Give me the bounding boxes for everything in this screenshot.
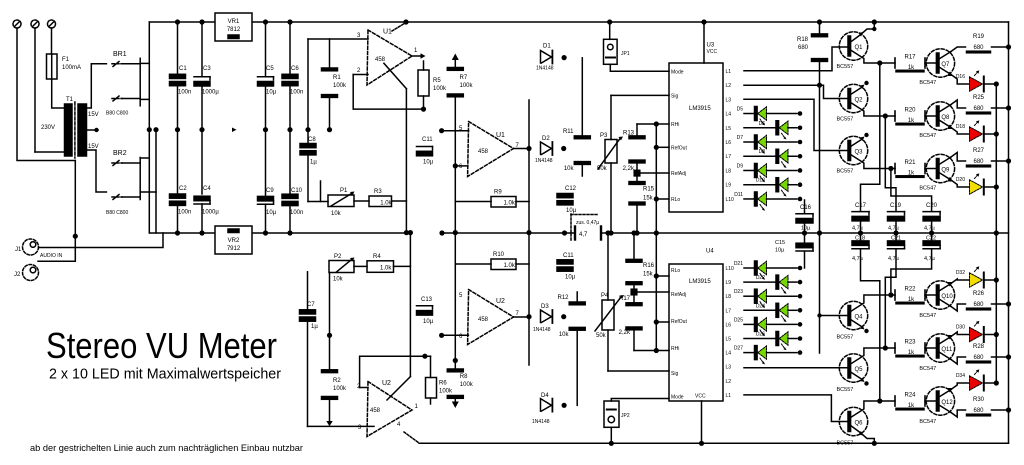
capacitor C2 100n: [170, 194, 186, 198]
svg-text:L2: L2: [726, 379, 732, 385]
svg-text:C7: C7: [307, 302, 315, 308]
svg-text:RLo: RLo: [671, 197, 680, 203]
wire J1 to 0V rail: [39, 233, 164, 248]
IC U3 LM3915: [669, 63, 723, 212]
svg-text:R8: R8: [460, 374, 468, 380]
svg-text:BC547: BC547: [919, 80, 936, 86]
resistor R21 1k: [894, 164, 896, 174]
svg-text:4,7µ: 4,7µ: [924, 256, 936, 262]
svg-text:D24: D24: [756, 303, 765, 309]
LED D5 green: [744, 113, 755, 115]
capacitor C20 4.7u: [891, 169, 932, 212]
wire RefOut row: [656, 146, 669, 148]
svg-text:Sig: Sig: [671, 371, 678, 377]
svg-text:D1: D1: [543, 44, 551, 50]
transistor Q8 BC547: [926, 102, 954, 130]
U1a output wire: [412, 55, 420, 57]
svg-text:L3: L3: [726, 365, 732, 371]
svg-text:15V: 15V: [88, 112, 99, 118]
diode D4 1N4148: [541, 399, 552, 412]
svg-text:C22: C22: [926, 236, 936, 242]
svg-text:L9: L9: [726, 183, 732, 189]
LED D25 green: [744, 323, 755, 325]
wire RHi row: [637, 123, 669, 125]
Q5 collector: [851, 348, 895, 364]
capacitor C12 10u: [557, 194, 573, 198]
transistor Q12 BC547: [926, 387, 954, 415]
resistor R3 1.0k: [369, 196, 392, 207]
svg-text:D10: D10: [756, 178, 765, 184]
LED D23 green: [744, 295, 755, 297]
potentiometer P1 10k: [328, 195, 354, 207]
svg-text:R12: R12: [557, 295, 569, 301]
svg-text:1N4148: 1N4148: [532, 419, 550, 425]
svg-text:458: 458: [478, 149, 489, 155]
capacitor C14 4.7u series on rail: [574, 227, 576, 240]
svg-text:D5: D5: [737, 107, 744, 113]
svg-text:Q9: Q9: [941, 168, 950, 174]
resistor R24 1k: [894, 396, 896, 406]
svg-text:BC557: BC557: [837, 441, 854, 447]
net arrow center tap row: [232, 128, 237, 133]
svg-text:C9: C9: [266, 188, 274, 194]
resistor R5 100k: [418, 70, 429, 96]
svg-text:7912: 7912: [227, 246, 241, 252]
wire RLo-b row: [656, 275, 669, 277]
svg-text:ab der gestrichelten Linie auc: ab der gestrichelten Linie auch zum nach…: [30, 443, 303, 454]
vertical net U1b output: [528, 100, 530, 233]
svg-text:R7: R7: [460, 75, 468, 81]
svg-text:R3: R3: [374, 189, 382, 195]
svg-text:680: 680: [973, 106, 984, 112]
svg-text:C11: C11: [422, 137, 433, 143]
Q6 emitter to bottom rail: [851, 426, 861, 433]
svg-text:BC557: BC557: [837, 387, 854, 393]
svg-text:Q5: Q5: [855, 367, 864, 373]
svg-text:D9: D9: [737, 163, 744, 169]
resistor R7 100k with V+ arrow: [452, 54, 459, 61]
jumper JP2: [604, 401, 619, 427]
wire RefAdj row: [637, 172, 669, 174]
resistor R20 1k: [894, 111, 896, 121]
U2a V- dashed: [404, 432, 419, 443]
U3 VCC wire: [703, 22, 705, 63]
svg-text:2,2k: 2,2k: [619, 330, 631, 336]
wire U1a output to R3 node: [384, 63, 407, 88]
terminal X2: [31, 20, 39, 28]
LED cathode bus top: [995, 84, 997, 384]
svg-text:R24: R24: [904, 393, 916, 399]
U1b output wire: [514, 148, 530, 150]
svg-text:1000µ: 1000µ: [202, 210, 219, 216]
resistor R16 1.5k: [626, 282, 642, 285]
wire L1 to Q1: [744, 47, 848, 71]
svg-text:10k: 10k: [559, 332, 570, 338]
Q4 collector: [851, 295, 895, 312]
potentiometer P2 10k: [329, 261, 354, 273]
transistor Q9 BC547: [926, 154, 954, 182]
svg-text:C15: C15: [775, 240, 785, 246]
svg-text:1.0k: 1.0k: [504, 263, 516, 269]
svg-text:AUDIO IN: AUDIO IN: [40, 253, 63, 259]
transistor Q7 BC547: [926, 49, 954, 77]
svg-text:C19: C19: [890, 203, 902, 209]
svg-text:P2: P2: [334, 254, 342, 260]
wire X1 down and across: [17, 28, 75, 161]
capacitor C6 100n: [289, 22, 291, 74]
Q2 collector: [851, 103, 895, 117]
svg-text:4,7µ: 4,7µ: [888, 256, 900, 262]
svg-text:L4: L4: [726, 112, 732, 118]
svg-text:L7: L7: [726, 308, 732, 314]
svg-text:BC547: BC547: [919, 186, 936, 192]
svg-text:U1: U1: [496, 132, 505, 139]
wire X3 to fuse: [51, 28, 53, 54]
svg-text:T1: T1: [66, 97, 74, 103]
svg-text:100n: 100n: [290, 90, 303, 96]
svg-text:B80 C800: B80 C800: [106, 210, 128, 216]
wire X2 down: [34, 28, 36, 152]
svg-text:C2: C2: [179, 186, 187, 192]
wire to U2a output diag: [387, 377, 410, 400]
U1a feedback loop wire: [353, 75, 423, 110]
U2b output: [514, 316, 530, 318]
svg-text:C16: C16: [800, 205, 812, 211]
svg-text:4,7µ: 4,7µ: [888, 225, 900, 231]
svg-text:VCC: VCC: [707, 49, 718, 55]
resistor R23 1k: [894, 343, 896, 353]
Q7 collector to R19: [939, 52, 951, 60]
svg-text:RHi: RHi: [671, 346, 679, 352]
svg-text:L10: L10: [726, 266, 735, 272]
capacitor C9 10u: [258, 196, 274, 201]
svg-text:RefAdj: RefAdj: [671, 171, 686, 177]
svg-text:U2: U2: [382, 380, 391, 387]
svg-text:10k: 10k: [333, 277, 344, 283]
U4 VCC wire: [701, 401, 703, 443]
transistor Q1 BC557: [839, 32, 867, 60]
svg-text:10µ: 10µ: [266, 210, 277, 216]
capacitor C19 4.7u: [885, 116, 896, 211]
terminal X3: [48, 20, 56, 28]
resistor R9 1.0k: [491, 197, 516, 208]
resistor R2 100k: [322, 370, 338, 373]
vertical net U2b output: [528, 233, 530, 365]
svg-text:RefOut: RefOut: [671, 146, 687, 152]
svg-text:R30: R30: [973, 397, 985, 403]
svg-text:L7: L7: [726, 154, 732, 160]
svg-text:VR1: VR1: [228, 19, 240, 25]
svg-text:RHi: RHi: [671, 122, 679, 128]
Q10 emitter to LED: [939, 284, 951, 292]
svg-text:R5: R5: [433, 78, 441, 84]
svg-text:10µ: 10µ: [266, 90, 277, 96]
svg-text:R28: R28: [973, 344, 985, 350]
svg-text:R27: R27: [973, 148, 985, 154]
resistor R17b 2.2k: [633, 330, 635, 351]
svg-text:680: 680: [973, 355, 984, 361]
svg-text:R10: R10: [493, 252, 505, 258]
Q7 emitter to LED: [939, 67, 951, 75]
diode D1 1N4148: [541, 51, 552, 64]
svg-text:L8: L8: [726, 294, 732, 300]
LED D9 green: [744, 169, 755, 171]
wire primary bottom: [35, 151, 65, 153]
svg-text:R19: R19: [973, 34, 985, 40]
Q3 collector: [851, 155, 895, 169]
resistor R17 1k: [894, 58, 896, 68]
LED D18: [970, 127, 983, 141]
svg-text:D4: D4: [541, 393, 549, 399]
svg-text:230V: 230V: [41, 125, 55, 131]
capacitor C13 10u: [417, 305, 433, 307]
wire R18 down to Q4 base riser: [819, 61, 821, 353]
op-amp U2a: [367, 382, 412, 437]
svg-text:R2: R2: [333, 378, 341, 384]
svg-text:D16: D16: [956, 74, 965, 80]
svg-text:C13: C13: [421, 297, 433, 303]
wire L3 to Q3: [744, 99, 848, 150]
wire L3b to Q5: [744, 367, 848, 369]
svg-text:C8: C8: [308, 137, 316, 143]
wire L2 to Q2: [744, 85, 848, 98]
svg-text:1N4148: 1N4148: [536, 66, 554, 72]
svg-text:R4: R4: [373, 254, 381, 260]
transistor Q5 BC557: [839, 354, 867, 382]
svg-text:C3: C3: [203, 66, 211, 72]
Q8 collector to R25: [939, 105, 951, 113]
U1b pin5 stub: [442, 130, 469, 132]
wire JP1 to Mode: [610, 64, 669, 71]
bottom rail V-: [419, 442, 1009, 444]
bridge rectifier BR2 B80C800: [112, 158, 156, 200]
U2a pin2 stub and loop: [360, 387, 368, 389]
connector J1: [23, 239, 39, 255]
svg-text:100k: 100k: [460, 382, 474, 388]
svg-text:L1: L1: [726, 393, 732, 399]
svg-text:10k: 10k: [564, 166, 575, 172]
U1b pin6 stub: [455, 165, 468, 167]
Q8 emitter to LED: [939, 120, 951, 128]
V+ rail: [149, 21, 1008, 23]
wire J2 up to transformer node: [38, 161, 75, 262]
transistor Q6 BC557: [839, 407, 867, 435]
U2b pin stub: [442, 334, 469, 336]
svg-text:C6: C6: [291, 66, 299, 72]
svg-text:15V: 15V: [88, 144, 99, 150]
Q1 emitter to rail: [851, 35, 861, 42]
capacitor C11 10u: [417, 146, 433, 148]
svg-text:1000µ: 1000µ: [202, 90, 219, 96]
svg-text:BC547: BC547: [919, 313, 936, 319]
terminal X1: [13, 20, 21, 28]
svg-text:2,2k: 2,2k: [623, 166, 635, 172]
svg-text:4,7µ: 4,7µ: [852, 256, 864, 262]
svg-text:D18: D18: [956, 124, 965, 130]
Q11 emitter to LED: [939, 337, 951, 345]
svg-text:100k: 100k: [433, 86, 447, 92]
svg-text:zus. 0,47µ: zus. 0,47µ: [576, 220, 599, 226]
svg-text:Q11: Q11: [941, 347, 953, 353]
svg-text:R6: R6: [439, 381, 447, 387]
svg-text:R18: R18: [797, 37, 809, 43]
LED D26 green: [744, 338, 776, 340]
wire riser to Q4 base: [820, 315, 849, 317]
svg-text:R16: R16: [643, 263, 655, 269]
svg-text:L1: L1: [726, 69, 732, 75]
svg-text:50k: 50k: [596, 333, 607, 339]
Q12 collector to R30: [939, 405, 951, 413]
Q9 collector to R27: [939, 157, 951, 165]
LED D30: [970, 327, 983, 341]
svg-text:R9: R9: [494, 190, 502, 196]
Q10 collector to R26: [939, 299, 951, 307]
svg-text:Q7: Q7: [941, 62, 950, 68]
svg-text:10µ: 10µ: [566, 208, 577, 214]
svg-text:LM3915: LM3915: [689, 106, 711, 112]
resistor R12 10k: [569, 302, 585, 305]
svg-text:C1: C1: [179, 66, 187, 72]
svg-text:BC547: BC547: [919, 133, 936, 139]
svg-text:Stereo VU Meter: Stereo VU Meter: [46, 325, 277, 366]
fuse F1 100mA: [47, 54, 58, 79]
svg-text:Q6: Q6: [855, 421, 864, 427]
dashed retrofit line: [570, 214, 572, 241]
LED D24 green: [744, 309, 776, 311]
LED D8 green: [744, 155, 776, 157]
svg-text:D3: D3: [541, 304, 549, 310]
svg-text:50k: 50k: [597, 166, 608, 172]
wire secondary bottom to BR2: [87, 150, 107, 192]
svg-text:BC547: BC547: [919, 419, 936, 425]
wire Sig row: [611, 94, 669, 96]
transistor Q11 BC547: [926, 334, 954, 362]
svg-text:100k: 100k: [460, 83, 474, 89]
svg-text:100k: 100k: [333, 83, 347, 89]
svg-text:L10: L10: [726, 197, 735, 203]
wire Sig-b row: [608, 370, 669, 372]
svg-text:BC557: BC557: [837, 335, 854, 341]
svg-text:R1: R1: [333, 75, 341, 81]
svg-text:1N4148: 1N4148: [535, 158, 553, 164]
transistor Q2 BC557: [839, 84, 867, 112]
svg-text:L8: L8: [726, 168, 732, 174]
capacitor C16 10u: [804, 200, 806, 214]
svg-text:RLo: RLo: [671, 268, 680, 274]
svg-text:100n: 100n: [290, 210, 303, 216]
feedback vertical bottom: [409, 233, 411, 377]
U1a V+ dashed: [392, 23, 406, 32]
capacitor C15 10u: [804, 233, 806, 243]
svg-text:Q1: Q1: [855, 45, 864, 51]
resistor R4 1.0k: [367, 261, 394, 273]
svg-text:R11: R11: [563, 129, 574, 135]
svg-text:4,7µ: 4,7µ: [924, 225, 936, 231]
capacitor C17 4.7u: [861, 63, 880, 211]
svg-text:U3: U3: [707, 43, 715, 49]
svg-text:R15: R15: [643, 187, 655, 193]
svg-text:Q8: Q8: [941, 115, 950, 121]
svg-text:C11: C11: [563, 253, 574, 259]
wire RLo row: [656, 198, 669, 200]
right supply bus: [1008, 22, 1010, 443]
resistor R1 100k: [322, 68, 338, 71]
LED D21 green: [744, 267, 755, 269]
voltage regulator VR2 7912: [215, 226, 252, 254]
LED D11 green: [744, 198, 755, 200]
svg-text:C20: C20: [926, 203, 938, 209]
capacitor C1 100n: [177, 22, 179, 74]
svg-text:D11: D11: [734, 192, 743, 198]
capacitor C11b 10u: [557, 260, 573, 264]
transistor Q4 BC557: [839, 301, 867, 329]
svg-text:100k: 100k: [439, 389, 453, 395]
svg-text:10µ: 10µ: [423, 319, 434, 325]
svg-text:JP2: JP2: [621, 413, 630, 419]
svg-text:Q10: Q10: [941, 294, 953, 300]
svg-text:R13: R13: [623, 131, 635, 137]
U1a pin2 stub: [353, 74, 368, 76]
svg-text:15k: 15k: [643, 196, 654, 202]
svg-text:VR2: VR2: [228, 238, 240, 244]
voltage regulator VR1 7812: [215, 13, 252, 41]
svg-text:1.0k: 1.0k: [504, 201, 516, 207]
Q11 collector to R28: [939, 352, 951, 360]
svg-text:LM3915: LM3915: [689, 279, 711, 285]
svg-text:D8: D8: [759, 149, 766, 155]
resistor R22 1k: [894, 290, 896, 300]
svg-text:100mA: 100mA: [62, 65, 81, 71]
svg-text:10µ: 10µ: [775, 248, 785, 254]
svg-text:Q12: Q12: [941, 400, 953, 406]
svg-text:C10: C10: [291, 188, 303, 194]
svg-text:458: 458: [370, 408, 381, 414]
wire RHi-b row: [634, 350, 669, 352]
svg-text:D23: D23: [734, 289, 743, 295]
transformer T1 230V/2x15V: [65, 102, 87, 158]
svg-text:R26: R26: [973, 291, 985, 297]
resistor R15 1.5k: [629, 182, 645, 185]
svg-text:C18: C18: [855, 236, 865, 242]
potentiometer P4 50k: [602, 300, 614, 330]
svg-text:100n: 100n: [178, 210, 191, 216]
LED D16: [970, 77, 983, 91]
LED D20: [970, 180, 983, 194]
svg-text:458: 458: [375, 57, 386, 63]
svg-text:VCC: VCC: [695, 394, 706, 400]
svg-text:D22: D22: [756, 275, 765, 281]
svg-text:D6: D6: [759, 121, 766, 127]
resistor R6 100k: [426, 378, 437, 399]
svg-text:458: 458: [478, 317, 489, 323]
transistor Q10 BC547: [926, 281, 954, 309]
capacitor C18 4.7u: [860, 233, 862, 241]
svg-text:1N4148: 1N4148: [533, 327, 551, 333]
svg-text:R17: R17: [904, 55, 916, 61]
RefAdj-b junction square: [631, 289, 637, 295]
wire R1 to U1a pin3: [308, 38, 368, 40]
diode D3 1N4148: [541, 310, 552, 323]
svg-text:4,7µ: 4,7µ: [852, 225, 864, 231]
svg-text:C21: C21: [891, 236, 901, 242]
op-amp U1b: [468, 122, 514, 177]
junction dots center-tap row: [147, 127, 152, 132]
svg-text:J1: J1: [15, 247, 22, 253]
svg-text:Mode: Mode: [671, 395, 684, 401]
svg-text:BC547: BC547: [919, 366, 936, 372]
svg-text:R20: R20: [904, 108, 916, 114]
svg-text:JP1: JP1: [621, 51, 630, 57]
